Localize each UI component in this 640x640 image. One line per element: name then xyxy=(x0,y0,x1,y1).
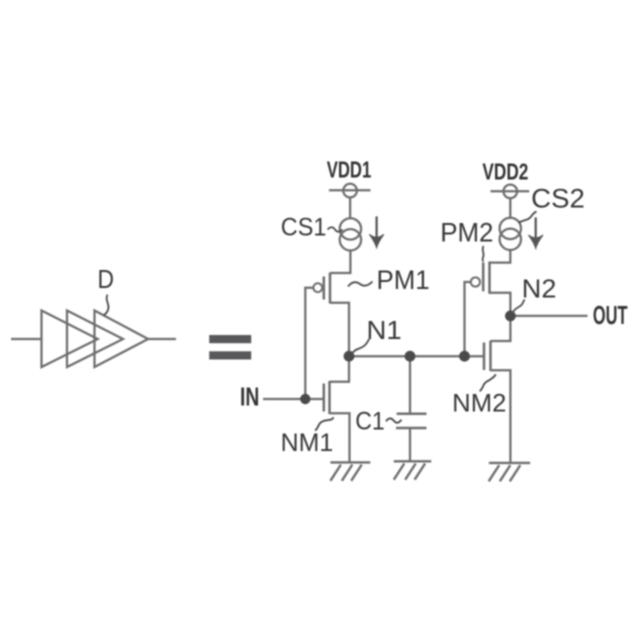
wire PM1 gate to IN node xyxy=(305,288,313,399)
PM2 gate bar xyxy=(482,262,485,291)
transistor NM2 xyxy=(484,341,491,371)
svg-text:D: D xyxy=(98,264,115,294)
svg-text:NM1: NM1 xyxy=(281,429,334,457)
transistor NM1 xyxy=(324,381,330,414)
svg-text:VDD1: VDD1 xyxy=(327,157,372,183)
equals sign xyxy=(209,335,251,360)
CS2 current direction arrow xyxy=(528,217,543,248)
svg-text:N1: N1 xyxy=(367,315,402,345)
wire CS1 to PM1 source xyxy=(330,251,350,274)
node N2 leader squiggle xyxy=(514,300,525,312)
buffer triangle 2 xyxy=(67,311,123,368)
svg-text:CS2: CS2 xyxy=(531,183,585,213)
svg-text:OUT: OUT xyxy=(593,300,628,330)
PM2 channel bar xyxy=(488,261,491,294)
VDD2 terminal xyxy=(491,190,530,192)
wire PM1 drain to node N1 xyxy=(330,303,349,356)
capacitor C1 xyxy=(409,356,411,413)
wire NM2 source to ground xyxy=(491,370,511,463)
svg-text:N2: N2 xyxy=(522,274,557,304)
PM1 gate bubble xyxy=(313,283,322,292)
wire VDD1 to CS1 xyxy=(349,197,351,218)
wire CS2 to PM2 source xyxy=(490,250,511,263)
transistor PM2 xyxy=(483,261,489,294)
CS1 leader tilde xyxy=(328,227,343,232)
NM1 leader squiggle xyxy=(315,417,333,430)
PM2 leader squiggle xyxy=(482,246,485,262)
buffer triangle 3 xyxy=(95,311,149,368)
node N2 junction dot xyxy=(505,311,516,322)
PM1 leader swung dash xyxy=(348,282,373,287)
wire PM2 drain to node N2 xyxy=(490,293,511,316)
wire buffer output xyxy=(148,338,176,340)
NM2 channel bar xyxy=(489,341,492,371)
ground under NM2 xyxy=(489,463,530,481)
NM1 channel bar xyxy=(328,381,331,414)
current source CS2 xyxy=(500,218,521,239)
current source CS1 xyxy=(340,218,361,239)
svg-text:VDD2: VDD2 xyxy=(482,158,528,184)
svg-text:PM1: PM1 xyxy=(377,265,430,295)
wire node N1 bus xyxy=(349,355,484,357)
wire IN xyxy=(263,398,324,400)
transistor PM1 xyxy=(324,273,330,304)
junction dot PM1/NM1 gate at IN xyxy=(300,394,310,404)
wire PM2 gate to node N1 xyxy=(465,282,472,356)
PM1 channel bar xyxy=(329,273,332,304)
node N1 leader squiggle xyxy=(353,339,370,353)
junction dot PM2 gate at N1 xyxy=(459,351,470,362)
label D leader squiggle xyxy=(104,295,109,316)
wire NM2 drain to N2 xyxy=(491,316,511,341)
svg-text:NM2: NM2 xyxy=(452,390,506,418)
svg-text:IN: IN xyxy=(240,381,259,411)
NM1 gate bar xyxy=(323,384,326,412)
wire buffer input xyxy=(11,338,42,340)
ground under NM1 xyxy=(330,462,370,480)
PM1 gate bar xyxy=(323,277,326,300)
wire VDD2 to CS2 xyxy=(509,198,511,218)
node N1 junction dot xyxy=(344,351,355,362)
ground under C1 xyxy=(394,461,432,479)
NM2 gate bar xyxy=(483,343,486,371)
CS1 current direction arrow xyxy=(369,216,384,247)
svg-text:CS1: CS1 xyxy=(281,214,327,242)
buffer triangle 1 xyxy=(42,311,98,368)
wire OUT xyxy=(510,315,587,317)
svg-text:C1: C1 xyxy=(355,407,385,435)
NM2 leader squiggle xyxy=(480,374,496,391)
C1 leader tilde xyxy=(386,418,401,422)
junction dot C1 top xyxy=(405,351,416,362)
wire NM1 source to ground xyxy=(330,413,350,462)
wire NM1 drain to N1 xyxy=(330,356,350,382)
svg-text:PM2: PM2 xyxy=(440,217,493,247)
PM2 gate bubble xyxy=(471,277,480,286)
VDD1 terminal xyxy=(329,189,371,191)
CS2 leader squiggle xyxy=(519,212,537,223)
